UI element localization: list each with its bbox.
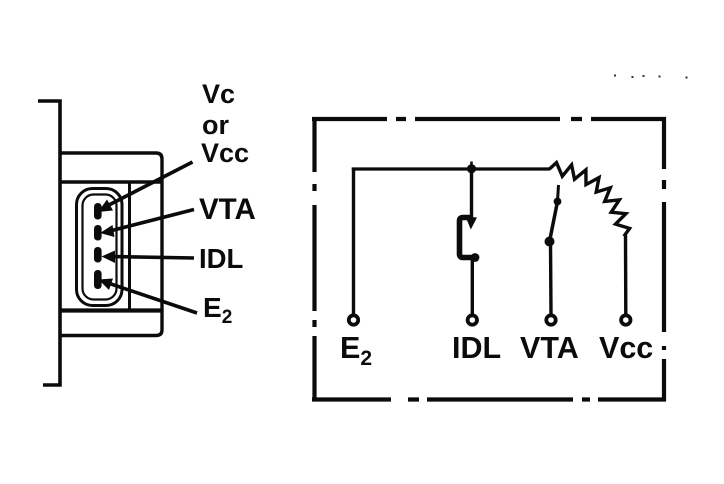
pin Vc [94,203,102,220]
leader arrow to pin Vc [98,162,193,212]
socket outer shell [77,189,123,306]
leader arrow to pin E2 [99,279,198,314]
terminal IDL [468,315,477,324]
VTA wiper arm [550,202,558,242]
pin IDL [94,247,102,263]
IDL fixed contact bracket [460,218,475,258]
leader arrow to pin IDL [102,251,195,264]
pin E2 [94,270,102,289]
top bus wire [352,167,550,170]
IDL contact arrowhead [466,217,478,230]
wire IDL moving contact [470,169,473,219]
wire Vcc terminal [624,235,628,315]
recess face line [128,182,131,311]
connector housing outer box [60,153,162,336]
scan noise dots [614,75,688,79]
svg-text:Vcc: Vcc [599,331,653,365]
svg-text:Vc: Vc [202,79,235,109]
wire IDL terminal [471,258,474,315]
dash-dot border box: bottom [312,397,666,401]
dash-dot border box: right [662,117,666,402]
pin VTA [94,225,102,241]
terminal Vcc [621,315,630,324]
svg-text:VTA: VTA [520,331,579,365]
mounting bracket (panel) [38,101,60,385]
VTA wiper stub [558,185,559,201]
wire VTA terminal [549,242,553,315]
junction node on bus [470,162,473,173]
socket inner shell [83,195,117,300]
dash-dot border box: left [312,117,316,402]
housing divider top [60,180,162,184]
svg-text:or: or [202,110,229,140]
svg-text:IDL: IDL [452,331,501,365]
housing divider bottom [60,308,162,312]
svg-text:Vcc: Vcc [201,138,249,168]
VTA wiper upper dot [554,198,562,206]
terminal VTA [546,315,555,324]
VTA pivot dot [545,237,555,247]
resistor track R1 [549,163,629,237]
svg-text:VTA: VTA [199,193,256,226]
svg-text:IDL: IDL [199,243,243,274]
wire E2 terminal [352,168,355,315]
dash-dot border box: top [312,117,666,121]
terminal E2 [349,315,358,324]
leader arrow to pin VTA [100,210,194,238]
